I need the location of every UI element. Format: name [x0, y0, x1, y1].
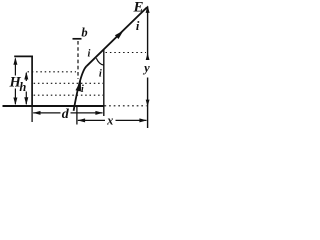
dashed vertical line b	[77, 41, 79, 79]
dimension d line	[33, 112, 102, 114]
svg-text:y: y	[142, 61, 150, 75]
wall	[31, 56, 33, 107]
dimension x line	[78, 119, 147, 121]
dimension H line	[14, 59, 16, 105]
perpendicular dropped from ray	[103, 50, 105, 116]
vertical reference line with y dimension	[147, 6, 149, 128]
dimension h line	[25, 73, 27, 105]
angle arc at perpendicular	[96, 58, 103, 65]
wall extension bar	[31, 106, 33, 122]
ground line dotted extension	[105, 105, 147, 107]
svg-text:i: i	[136, 19, 140, 33]
svg-text:E: E	[132, 0, 143, 15]
dotted level line mid	[34, 82, 103, 84]
ray to E	[87, 7, 148, 66]
svg-text:h: h	[19, 80, 26, 94]
dotted junction level line	[106, 52, 147, 54]
svg-text:b: b	[81, 25, 87, 39]
y dimension down arrowhead	[146, 100, 150, 107]
ground line	[3, 105, 105, 107]
dotted level line low	[34, 94, 103, 96]
ray arrowhead	[115, 31, 124, 39]
jet arrowhead	[76, 80, 81, 91]
top up arrowhead	[146, 5, 150, 12]
svg-text:x: x	[106, 114, 113, 128]
svg-text:i: i	[99, 69, 102, 80]
svg-text:d: d	[62, 107, 70, 122]
wall top bar	[14, 55, 33, 57]
y dimension up arrowhead	[146, 53, 150, 60]
svg-text:i: i	[81, 84, 84, 95]
jet trajectory curve	[74, 66, 87, 111]
jet base extension bar	[76, 106, 78, 125]
dotted level line at h	[28, 71, 77, 73]
tick b	[73, 38, 82, 40]
svg-text:i: i	[88, 49, 91, 60]
